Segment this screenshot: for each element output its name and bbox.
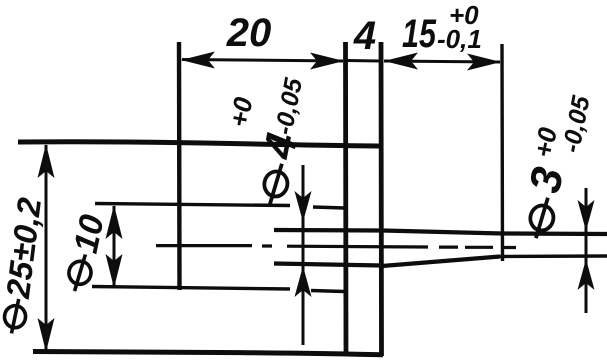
svg-text:4: 4 bbox=[353, 14, 376, 58]
arrowhead Φ25 bottom (down) bbox=[38, 318, 55, 352]
svg-text:-0,1: -0,1 bbox=[437, 24, 482, 54]
arrowhead Φ10 bottom (down) bbox=[106, 254, 123, 288]
dimension line 4 segment bbox=[346, 59, 380, 63]
svg-text:15: 15 bbox=[402, 12, 437, 56]
text Φ25±0,2 (rotated) bbox=[0, 195, 48, 336]
arrowhead Φ4 lower (up, tip y=266) bbox=[295, 266, 312, 297]
text Φ4 +0/-0,05 (rotated) bbox=[210, 66, 318, 209]
text Φ10 (rotated) bbox=[58, 211, 111, 295]
svg-text:-0,05: -0,05 bbox=[270, 75, 309, 137]
flange right edge + extension up (x~381) bbox=[379, 42, 384, 356]
svg-text:10: 10 bbox=[67, 211, 112, 256]
arrowhead Φ10 top (up) bbox=[106, 205, 123, 239]
dimension line 20 (y~60) bbox=[182, 60, 343, 62]
Φ4 bottom line (y~264) bbox=[274, 264, 382, 266]
arrowhead 15 right bbox=[467, 54, 501, 71]
Φ3 dimension line (continuous, x~586) bbox=[585, 188, 588, 313]
dimension line 15 (y~61) bbox=[384, 61, 500, 62]
Φ10 dimension line (x~114) bbox=[113, 206, 116, 287]
flange left edge + extension up (x~345) bbox=[343, 42, 348, 355]
pin bottom edge (tapered) bbox=[382, 257, 500, 267]
svg-text:20: 20 bbox=[226, 11, 272, 55]
body left edge + extension up to dim area (x~179) bbox=[177, 42, 182, 290]
Φ25 dimension line (x~46) bbox=[45, 145, 48, 351]
centerline (dash-dot, y~247) bbox=[156, 246, 516, 248]
arrowhead Φ3 upper (down, tip y=231) bbox=[578, 200, 595, 231]
Φ10 bottom line right segment bbox=[311, 291, 344, 292]
arrowhead 20 right bbox=[310, 53, 344, 70]
body bottom edge with left extension line (y~352) bbox=[33, 352, 383, 355]
Φ4 dimension line (continuous, x~303) bbox=[302, 165, 305, 345]
body top edge with left extension line (y~143) bbox=[18, 142, 383, 146]
arrowhead 20 left bbox=[181, 52, 215, 69]
svg-text:3: 3 bbox=[520, 163, 573, 196]
arrowhead Φ3 lower (up, tip y=259) bbox=[578, 259, 595, 290]
svg-text:25±0,2: 25±0,2 bbox=[0, 195, 48, 301]
Φ10 top line (y~205) left segment bbox=[95, 204, 290, 206]
arrowhead Φ4 upper (down, tip near y=222) bbox=[295, 191, 312, 222]
Φ10 bottom line (y~288) left segment bbox=[92, 287, 290, 290]
Φ4 top line / pin top edge / Φ3 top extension (y~231) bbox=[274, 230, 607, 234]
Φ10 top line right segment bbox=[313, 207, 344, 208]
svg-text:+0: +0 bbox=[223, 94, 258, 129]
Φ3 bottom extension to right edge bbox=[500, 254, 607, 258]
pin tip edge + extension up (x~502) bbox=[500, 44, 504, 261]
arrowhead 15 left bbox=[384, 53, 418, 70]
text Φ3 +0/-0,05 (rotated) bbox=[511, 87, 595, 244]
arrowhead Φ25 top (up) bbox=[38, 144, 55, 178]
svg-text:-0,05: -0,05 bbox=[557, 93, 596, 155]
